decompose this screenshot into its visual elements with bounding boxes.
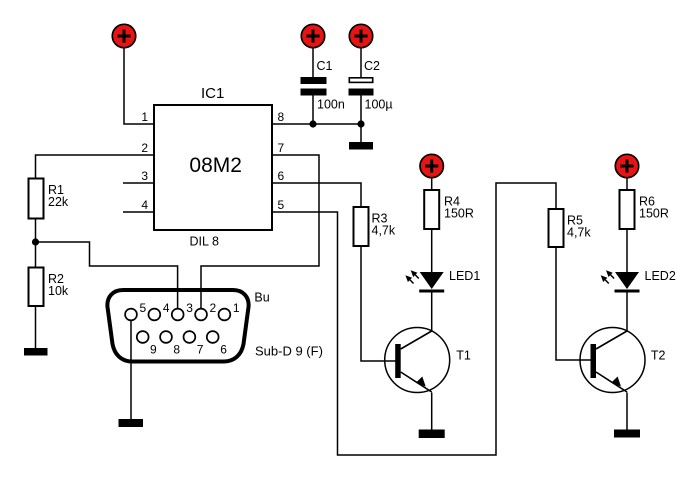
svg-text:6: 6: [220, 343, 227, 357]
resistor R1: [29, 179, 44, 219]
wire R3 to T1 base: [361, 247, 396, 361]
wire pin 7 to Sub-D pin 2: [201, 155, 319, 309]
capacitor C2 (electrolytic): [349, 78, 374, 96]
svg-text:LED2: LED2: [645, 269, 676, 283]
svg-text:1: 1: [233, 301, 240, 315]
resistor R6: [620, 190, 635, 229]
svg-text:22k: 22k: [48, 195, 69, 209]
svg-text:4: 4: [141, 198, 148, 212]
svg-text:4,7k: 4,7k: [567, 226, 591, 240]
svg-text:08M2: 08M2: [189, 154, 242, 177]
wire power to C2: [360, 48, 362, 78]
svg-text:7: 7: [278, 141, 285, 155]
svg-text:DIL 8: DIL 8: [190, 235, 219, 249]
svg-text:LED1: LED1: [449, 269, 480, 283]
wire junction to Sub-D pin 3: [36, 242, 178, 309]
power symbol +V (pin 1 supply): [112, 24, 135, 47]
Sub-D pin 4: [148, 309, 160, 321]
svg-text:8: 8: [173, 343, 180, 357]
svg-text:100n: 100n: [317, 98, 345, 112]
wire Sub-D pin 5 to ground: [130, 321, 132, 419]
wire T1 emitter to ground: [431, 393, 433, 430]
power symbol +V (C1): [301, 24, 324, 47]
transistor T1: [385, 328, 450, 393]
wire R5 to T2 base: [556, 248, 591, 360]
svg-text:5: 5: [140, 301, 147, 315]
resistor R3: [354, 207, 369, 246]
transistor T2: [580, 328, 645, 393]
wire pin 8 supply rail: [273, 123, 361, 125]
Sub-D pin 7: [184, 331, 196, 343]
wire LED1 to T1 collector: [431, 293, 433, 332]
wire R6 to LED2: [626, 229, 628, 272]
svg-text:2: 2: [141, 141, 148, 155]
wire power to R4: [431, 178, 433, 190]
wire pin 6 to R3 top: [273, 183, 361, 206]
ground (C2): [349, 142, 373, 150]
wire power to pin 1: [124, 48, 153, 124]
svg-text:Sub-D 9 (F): Sub-D 9 (F): [255, 344, 323, 359]
wire R4 to LED1: [431, 229, 433, 272]
svg-text:3: 3: [186, 301, 193, 315]
svg-text:T1: T1: [456, 349, 471, 363]
node C1 junction: [309, 120, 316, 127]
svg-text:1: 1: [141, 110, 148, 124]
node C2 junction: [357, 120, 364, 127]
svg-text:8: 8: [278, 110, 285, 124]
ground (R2): [24, 348, 48, 356]
wire LED2 to T2 collector: [626, 293, 628, 332]
wire power to C1: [312, 48, 314, 78]
power symbol +V (C2): [349, 24, 372, 47]
svg-text:150R: 150R: [444, 207, 474, 221]
power symbol +V (R6): [615, 154, 638, 177]
Sub-D pin 3: [172, 309, 184, 321]
Sub-D pin 1: [219, 309, 231, 321]
wire R2 to ground: [35, 307, 37, 348]
wire T2 emitter to ground: [626, 393, 628, 430]
svg-text:IC1: IC1: [201, 85, 224, 102]
svg-text:Bu: Bu: [254, 291, 269, 305]
wire R1 to R2: [35, 220, 37, 268]
Sub-D pin 6: [207, 331, 219, 343]
resistor R2: [29, 268, 44, 307]
svg-text:5: 5: [278, 198, 285, 212]
IC U1 body: [154, 105, 272, 230]
svg-text:4: 4: [163, 301, 170, 315]
connector Bu Sub-D 9 outline: [107, 290, 248, 362]
wire pin 2 to R1 top: [36, 155, 154, 178]
svg-text:2: 2: [210, 301, 217, 315]
svg-text:100µ: 100µ: [365, 98, 393, 112]
wire pin 4 stub: [123, 211, 153, 213]
svg-text:3: 3: [141, 169, 148, 183]
wire pin 3 stub: [123, 182, 153, 184]
svg-text:9: 9: [150, 343, 157, 357]
svg-text:6: 6: [278, 169, 285, 183]
diode LED1: [405, 270, 444, 292]
svg-text:7: 7: [197, 343, 204, 357]
svg-text:C2: C2: [364, 59, 380, 73]
node R1/R2 junction: [32, 238, 39, 245]
ground (T2): [614, 430, 640, 438]
diode LED2: [601, 270, 640, 292]
ground (Sub-D): [119, 419, 144, 427]
wire C1 to node: [312, 96, 314, 125]
resistor R5: [549, 209, 564, 247]
svg-text:C1: C1: [317, 59, 333, 73]
resistor R4: [424, 190, 439, 229]
ground (T1): [419, 430, 445, 439]
Sub-D pin 8: [160, 331, 172, 343]
Sub-D pin 2: [195, 309, 207, 321]
svg-text:T2: T2: [651, 349, 666, 363]
power symbol +V (R4): [420, 154, 443, 177]
svg-text:4,7k: 4,7k: [372, 224, 396, 238]
wire C2 to node and ground: [360, 96, 362, 143]
wire pin 5 to R5 top: [273, 183, 556, 455]
Sub-D pin 9: [137, 331, 149, 343]
svg-text:150R: 150R: [639, 207, 669, 221]
capacitor C1: [301, 77, 327, 96]
Sub-D pin 5: [125, 309, 137, 321]
svg-text:10k: 10k: [48, 284, 69, 298]
wire power to R6: [626, 178, 628, 190]
